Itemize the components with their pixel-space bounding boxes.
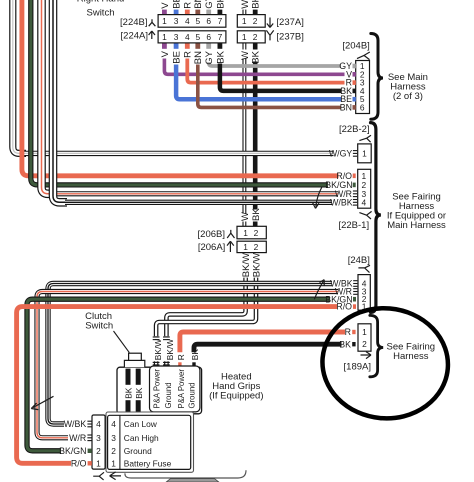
svg-text:1: 1: [362, 148, 367, 158]
svg-text:2: 2: [96, 446, 101, 456]
svg-text:(If Equipped): (If Equipped): [209, 391, 263, 402]
svg-text:R/O: R/O: [336, 302, 352, 312]
svg-text:BK: BK: [190, 349, 200, 361]
svg-text:GY: GY: [204, 0, 215, 9]
svg-text:BN: BN: [193, 0, 204, 9]
svg-text:Can High: Can High: [124, 433, 159, 443]
connector 224B box: [158, 15, 226, 28]
svg-text:5: 5: [195, 16, 200, 26]
svg-text:BK: BK: [215, 50, 226, 63]
arrow symbol below 189A: [361, 352, 372, 359]
connector 22B-2 box: [358, 144, 372, 163]
svg-text:BK: BK: [215, 0, 226, 9]
brace see fairing harness (189A): [370, 315, 383, 376]
wire W/R from 24B pin 3 left and down to CAN connector pin 3: [37, 292, 338, 438]
arrow symbol 224A: [149, 31, 155, 39]
clutch switch BK wire bars in module: [126, 369, 131, 385]
wire W/GY from top-left down and right to 22B-2 pin 1: [13, 0, 26, 153]
stub wire W above 237A: [242, 10, 246, 15]
svg-text:[24B]: [24B]: [348, 255, 370, 266]
svg-text:[22B-2]: [22B-2]: [339, 124, 370, 135]
connector 189A box: [358, 324, 371, 351]
heated hand grips module outer box: [117, 367, 202, 414]
wire BK from hand grip module up and right to 189A pin 2: [194, 344, 342, 352]
svg-text:7: 7: [218, 32, 223, 42]
svg-text:3: 3: [174, 16, 179, 26]
svg-text:[204B]: [204B]: [342, 41, 369, 52]
svg-text:Switch: Switch: [87, 8, 115, 19]
heated hand grips inner panel: [150, 366, 200, 412]
svg-text:2: 2: [111, 446, 116, 456]
tick marks on BK/W stubs: [153, 336, 160, 338]
svg-text:3: 3: [174, 32, 179, 42]
brace see fairing harness or main harness: [371, 123, 381, 313]
connector 24B box: [358, 275, 370, 311]
svg-text:BK: BK: [251, 208, 262, 221]
svg-text:R: R: [183, 51, 194, 58]
svg-text:4: 4: [361, 197, 366, 207]
svg-text:BK/W: BK/W: [165, 339, 175, 360]
brace see main harness: [371, 34, 383, 120]
CAN connector pin box: [92, 415, 105, 469]
svg-text:[237A]: [237A]: [276, 17, 303, 28]
wire BK from connector 237A/B down to 206B pin 2 (black): [253, 43, 258, 50]
svg-text:[237B]: [237B]: [276, 32, 303, 43]
stub wire BK above 237A: [253, 10, 258, 15]
svg-text:Can Low: Can Low: [124, 419, 158, 429]
svg-text:1: 1: [362, 327, 367, 337]
svg-text:BK/W: BK/W: [153, 339, 163, 360]
module base tab: [166, 479, 219, 482]
svg-text:W/GY: W/GY: [329, 149, 353, 159]
wire W/R from top-left to 22B-1 pin 3: [42, 0, 57, 194]
svg-text:R: R: [345, 327, 351, 337]
svg-text:Main Harness: Main Harness: [387, 220, 446, 231]
svg-text:2: 2: [254, 242, 259, 252]
svg-text:7: 7: [218, 16, 223, 26]
fork symbol 206B: [227, 230, 234, 238]
svg-text:[22B-1]: [22B-1]: [338, 220, 369, 231]
connector 224A box: [158, 31, 226, 43]
svg-text:2: 2: [253, 32, 258, 42]
fork symbol 224B: [149, 19, 156, 26]
svg-text:4: 4: [111, 419, 116, 429]
wire BK/W pair from 206A pin 2, staircase left into hand grip module: [156, 278, 256, 337]
svg-text:W/BK: W/BK: [64, 419, 87, 429]
svg-text:1: 1: [242, 16, 247, 26]
fork symbol 204B: [357, 52, 370, 60]
svg-text:W: W: [240, 212, 251, 221]
svg-text:BE: BE: [172, 51, 183, 64]
svg-text:BN: BN: [193, 51, 204, 64]
svg-text:Ground: Ground: [124, 446, 152, 456]
wire BN from 224A pin 5 to 204B pin 6: [198, 65, 341, 108]
fork symbol 24B: [358, 265, 370, 272]
svg-text:P&A Power: P&A Power: [177, 369, 186, 409]
connector 206A box: [237, 241, 266, 252]
svg-text:6: 6: [206, 16, 211, 26]
svg-text:GY: GY: [204, 50, 215, 64]
module base plate outline: [125, 470, 246, 478]
clutch switch body: [124, 360, 144, 367]
mating symbols below CAN connector: [93, 472, 104, 480]
svg-text:1: 1: [162, 16, 167, 26]
svg-text:4: 4: [185, 32, 190, 42]
CAN connector label box: [108, 415, 191, 469]
wire R from hand grip module up and right to 189A pin 1: [180, 332, 345, 352]
svg-text:Ground: Ground: [164, 382, 173, 408]
svg-text:W: W: [240, 51, 251, 60]
svg-text:3: 3: [96, 433, 101, 443]
svg-text:1: 1: [243, 242, 248, 252]
svg-text:P&A Power: P&A Power: [153, 369, 162, 409]
arrow symbol 206A: [227, 241, 234, 252]
svg-text:6: 6: [206, 32, 211, 42]
CAN connector outer housing: [106, 412, 194, 472]
svg-text:BK: BK: [251, 50, 262, 63]
svg-text:1: 1: [162, 32, 167, 42]
svg-text:BK: BK: [251, 0, 262, 9]
fork symbol below 22B-1: [359, 211, 371, 219]
connector 237B box: [237, 31, 265, 43]
svg-text:R: R: [176, 354, 186, 360]
wire BK/GN from 24B pin 2 left and down to CAN connector pin 2: [27, 299, 330, 451]
svg-text:BK/W: BK/W: [251, 253, 262, 277]
svg-text:BK: BK: [134, 387, 144, 399]
wire GY from 224A pin 6 to 204B pin 1: [209, 62, 341, 66]
svg-text:BE: BE: [172, 0, 183, 9]
svg-text:[224B]: [224B]: [120, 17, 147, 28]
wire R from 224A pin 4 to 204B pin 3: [187, 59, 344, 83]
stub wires above connector 224B: [162, 10, 167, 15]
wire BK/W pair from 206A pin 1, staircase left into hand grip module: [166, 278, 245, 337]
svg-text:Battery Fuse: Battery Fuse: [124, 458, 172, 468]
section link arrow across CAN wires: [31, 396, 53, 409]
svg-text:5: 5: [195, 32, 200, 42]
fork symbol 22B-2: [359, 135, 371, 142]
stub wires below connector 224A: [162, 43, 167, 49]
clutch switch pointer line: [114, 331, 130, 353]
connector 204B box: [356, 61, 370, 114]
svg-text:1: 1: [242, 32, 247, 42]
svg-text:2: 2: [253, 16, 258, 26]
section link arrow across 24B wires: [314, 280, 324, 300]
svg-text:2: 2: [254, 228, 259, 238]
svg-text:BK: BK: [339, 339, 351, 349]
svg-text:W/R: W/R: [69, 433, 86, 443]
svg-text:R/O: R/O: [71, 459, 87, 469]
svg-text:3: 3: [111, 433, 116, 443]
svg-text:4: 4: [185, 16, 190, 26]
svg-text:Harness: Harness: [393, 351, 429, 362]
svg-text:1: 1: [243, 228, 248, 238]
svg-text:Right Hand: Right Hand: [77, 0, 125, 5]
wire BE from 224A pin 3 to 204B pin 5: [176, 65, 341, 100]
svg-text:Switch: Switch: [85, 321, 113, 332]
svg-text:V: V: [160, 2, 171, 9]
svg-text:1: 1: [111, 458, 116, 468]
svg-text:6: 6: [360, 102, 365, 112]
svg-text:V: V: [160, 50, 171, 57]
wire BK/GN from top-left to 22B-1 pin 2: [31, 0, 328, 185]
wire R/O from top-left to 22B-1 pin 1: [22, 0, 339, 176]
svg-text:[206B]: [206B]: [198, 229, 225, 240]
svg-text:2: 2: [362, 339, 367, 349]
wire R/O from 24B pin 1 left and down to CAN connector pin 1: [17, 307, 337, 464]
connector 237A box: [237, 15, 265, 28]
wire W/BK from 24B pin 4 left and down to CAN connector pin 4: [48, 284, 332, 425]
section link arrow across 22B-1 wires: [313, 187, 322, 208]
svg-text:[224A]: [224A]: [121, 31, 148, 42]
wire BK from 224A pin 7 to 204B pin 4: [220, 64, 341, 91]
svg-text:Ground: Ground: [188, 382, 197, 408]
svg-text:R: R: [183, 2, 194, 9]
svg-text:BN: BN: [340, 102, 352, 112]
svg-text:W: W: [240, 0, 251, 9]
svg-text:BK/GN: BK/GN: [59, 446, 86, 456]
svg-text:BK/W: BK/W: [241, 253, 252, 277]
wire V from 224A pin 1 to 204B pin 2: [164, 59, 344, 75]
svg-text:BK: BK: [124, 387, 134, 399]
svg-text:4: 4: [96, 419, 101, 429]
svg-text:1: 1: [96, 458, 101, 468]
svg-text:[206A]: [206A]: [198, 242, 225, 253]
wire W/BK from top-left to 22B-1 pin 4: [53, 0, 67, 202]
svg-text:[189A]: [189A]: [344, 362, 371, 373]
connector 22B-1 box: [358, 169, 371, 208]
svg-text:W/BK: W/BK: [330, 197, 353, 207]
highlight ellipse around 189A: [318, 303, 453, 424]
connector 206B box: [237, 226, 266, 239]
wire W from connector 237B down to 206B (white, pin 1): [242, 43, 246, 50]
svg-text:(2 of 3): (2 of 3): [393, 91, 423, 102]
